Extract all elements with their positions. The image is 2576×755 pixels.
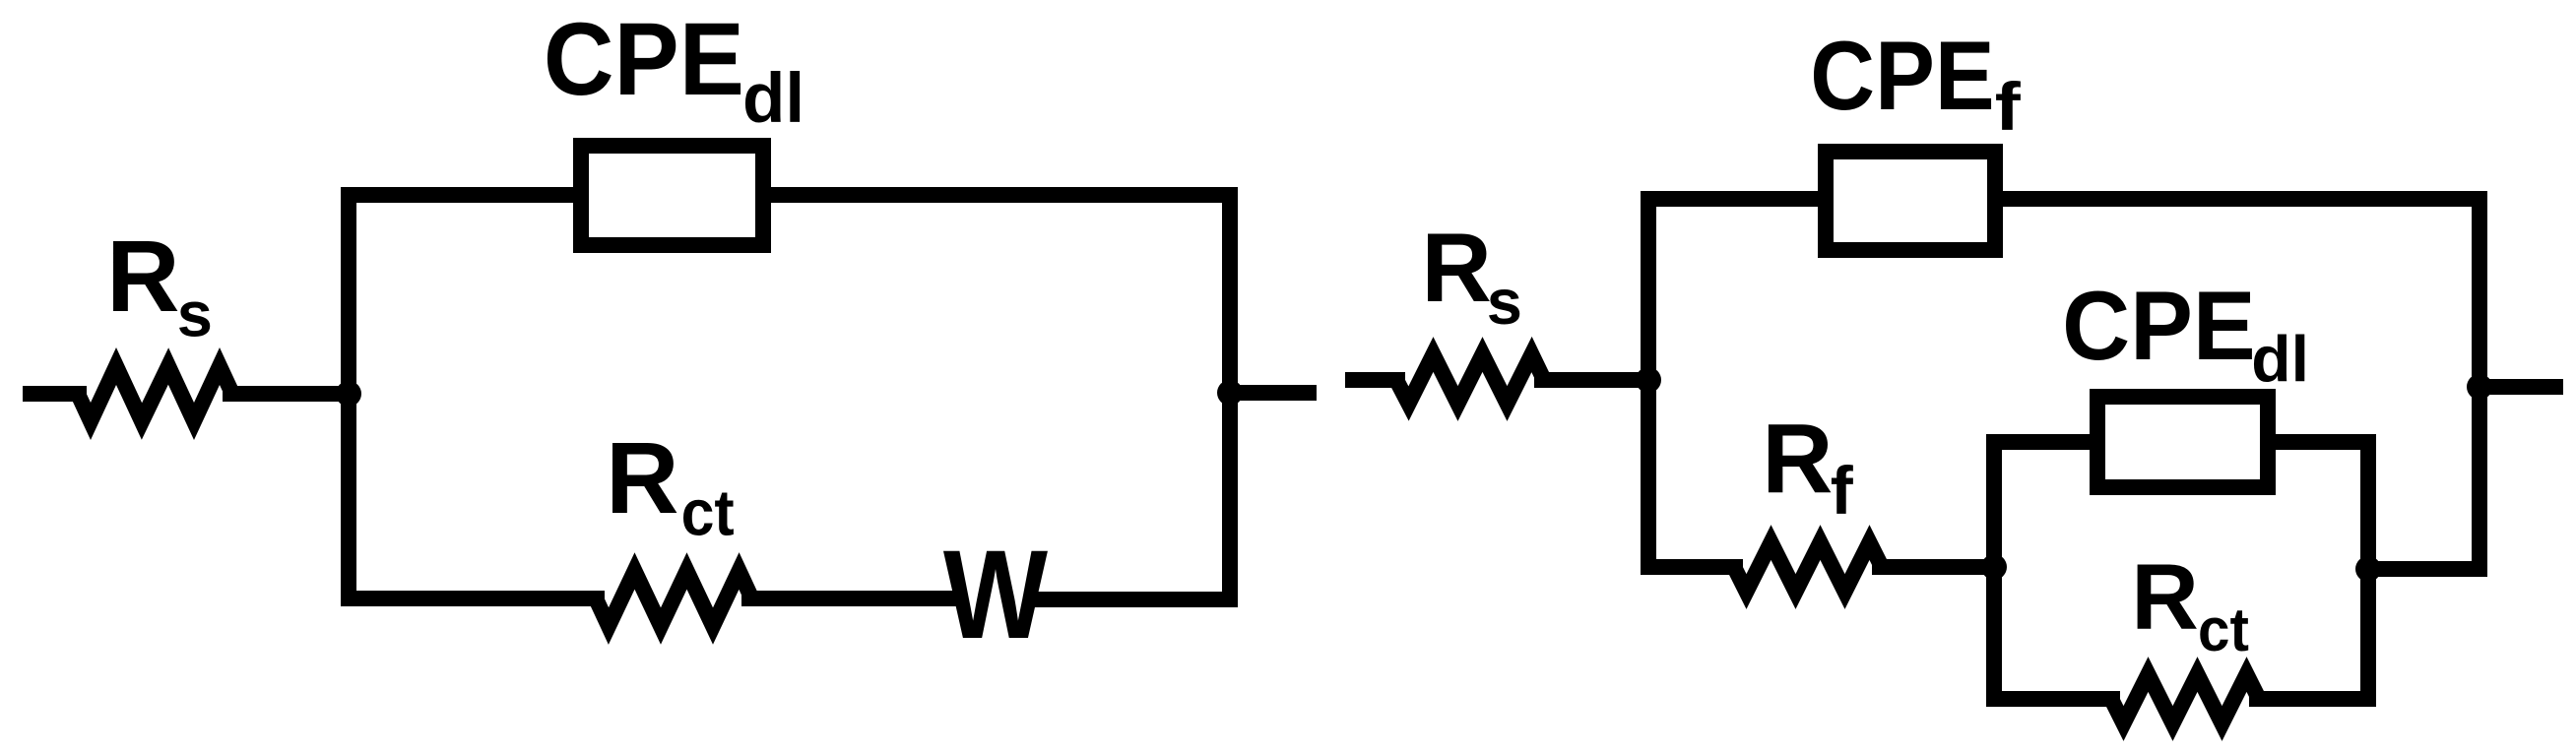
resistor R_ct zigzag (left circuit) — [596, 571, 752, 626]
wire from Rf to node D (right circuit) — [1872, 559, 1994, 575]
svg-text:R: R — [1762, 404, 1833, 514]
svg-text:ct: ct — [2198, 597, 2249, 664]
resistor R_f zigzag (right circuit) — [1734, 542, 1882, 592]
svg-text:R: R — [2131, 545, 2199, 650]
wire input stub (right circuit) — [1345, 372, 1405, 388]
svg-text:dl: dl — [742, 60, 805, 138]
svg-text:R: R — [1421, 213, 1492, 322]
svg-text:R: R — [606, 421, 678, 535]
resistor R_s zigzag (left circuit) — [78, 366, 232, 421]
node E junction inner-right (right circuit) — [2355, 556, 2381, 582]
wire bottom branch from node A to Rct (left circuit) — [341, 591, 605, 606]
svg-text:R: R — [106, 220, 179, 333]
resistor R_s zigzag (right circuit) — [1396, 354, 1544, 404]
svg-text:CPE: CPE — [544, 2, 744, 117]
wire from Warburg W to right rail (left circuit) — [1028, 592, 1238, 607]
resistor R_ct zigzag (right circuit) — [2111, 674, 2259, 724]
wire left rail and top branch to CPEf box (right circuit) — [1648, 199, 1818, 575]
capacitor CPEdl box (left circuit) — [581, 146, 763, 245]
wire from Rs to node C (right circuit) — [1534, 372, 1648, 388]
svg-text:s: s — [1487, 266, 1522, 338]
wire left rail and top branch to CPEdl box (left circuit) — [349, 195, 573, 606]
wire output stub (right circuit) — [2487, 379, 2563, 395]
svg-text:f: f — [1995, 69, 2022, 145]
svg-text:CPE: CPE — [1810, 21, 1994, 130]
svg-text:dl: dl — [2251, 323, 2309, 396]
node D junction inner-left (right circuit) — [1981, 554, 2007, 580]
capacitor CPEf box (right circuit) — [1826, 152, 1995, 250]
node B junction right (left circuit) — [1217, 380, 1243, 406]
svg-text:W: W — [943, 525, 1048, 665]
node A junction left (left circuit) — [336, 381, 361, 407]
svg-text:f: f — [1831, 453, 1854, 529]
node C junction left (right circuit) — [1636, 367, 1661, 393]
wire inner loop bottom-right segment and right rail to CPEdl box (right circuit) — [2249, 442, 2368, 699]
svg-text:s: s — [177, 279, 213, 350]
wire top branch from CPEdl box and right rail (left circuit) — [771, 195, 1230, 606]
wire output stub (left circuit) — [1238, 385, 1317, 401]
svg-text:CPE: CPE — [2062, 271, 2256, 380]
wire input stub (left circuit) — [23, 386, 87, 402]
svg-text:ct: ct — [681, 476, 735, 549]
wire from Rs to node A (left circuit) — [223, 386, 349, 402]
wire bottom branch from node C to Rf (right circuit) — [1641, 559, 1743, 575]
capacitor CPEdl box (right circuit) — [2097, 397, 2268, 487]
node F junction right (right circuit) — [2467, 374, 2492, 400]
wire top branch from CPEf box, outer right rail and connector to node E (right circuit) — [2003, 199, 2479, 569]
wire inner loop left rail and bottom-left segment (right circuit) — [1994, 442, 2120, 699]
wire from Rct to Warburg W (left circuit) — [741, 591, 959, 606]
